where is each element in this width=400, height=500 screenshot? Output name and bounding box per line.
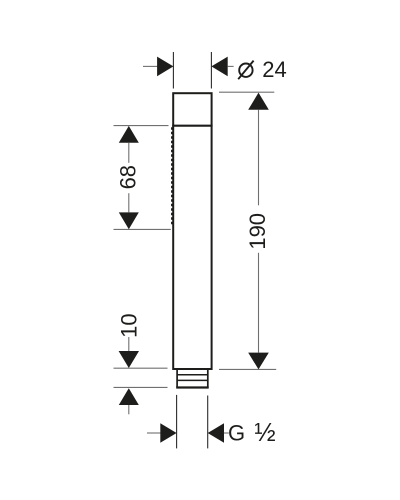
- dia24 arrow right: [211, 57, 227, 77]
- 68 dim line upper segment: [128, 143, 130, 163]
- dia24 dim tail right: [228, 65, 234, 67]
- 10 extension line bottom: [114, 386, 168, 388]
- dia24 extension line left: [172, 52, 174, 89]
- svg-text:24: 24: [262, 57, 286, 82]
- dia24 extension line right: [210, 52, 212, 89]
- thread groove line 1: [177, 374, 208, 376]
- thread right edge: [207, 369, 209, 388]
- svg-text:½: ½: [254, 419, 275, 447]
- svg-text:10: 10: [117, 313, 142, 337]
- svg-text:G: G: [228, 421, 245, 446]
- 190 extension line bottom: [219, 368, 276, 370]
- 190 dim line lower segment: [258, 253, 260, 353]
- G half arrow right: [208, 423, 224, 443]
- 10 extension line top: [114, 367, 168, 369]
- diameter symbol circle: [239, 63, 252, 76]
- 68 arrow down: [119, 212, 139, 229]
- 68 extension line top: [114, 125, 169, 127]
- 68 arrow up: [119, 126, 139, 143]
- dia24 dim tail left: [143, 65, 158, 67]
- 190 arrow down: [248, 353, 269, 370]
- thread left edge: [176, 369, 178, 388]
- 10 dim line below arrow: [128, 405, 130, 414]
- svg-text:68: 68: [116, 165, 141, 189]
- dia24 arrow left: [157, 57, 173, 77]
- 190 arrow up: [248, 93, 269, 110]
- 10 arrow down: [119, 351, 139, 368]
- 68 dim line lower segment: [128, 193, 130, 212]
- 190 extension line top: [219, 91, 274, 93]
- svg-text:190: 190: [245, 213, 270, 250]
- G half extension line right: [207, 396, 209, 449]
- G half arrow left: [160, 423, 176, 443]
- 190 dim line upper segment: [258, 110, 260, 206]
- 68 extension line bottom: [114, 228, 171, 230]
- 10 dim line above arrow: [128, 337, 130, 351]
- thread bottom edge: [176, 386, 209, 388]
- G half extension line left: [176, 395, 178, 449]
- spray face dashed line: [171, 127, 173, 226]
- G half dim tail right: [224, 432, 229, 434]
- diameter symbol slash: [238, 61, 253, 80]
- 10 arrow up below: [119, 388, 139, 405]
- thread groove line 2: [177, 379, 208, 381]
- G half dim tail left: [147, 432, 161, 434]
- shower body outline: [173, 93, 211, 369]
- head joint line: [172, 125, 212, 127]
